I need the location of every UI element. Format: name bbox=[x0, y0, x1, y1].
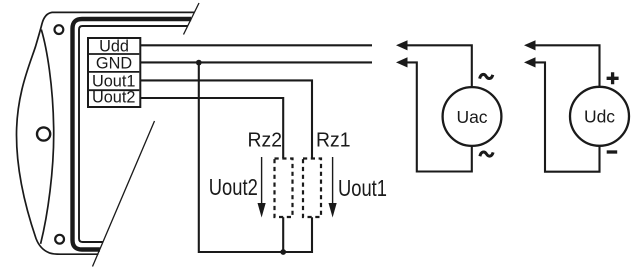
svg-text:Udc: Udc bbox=[584, 107, 615, 127]
svg-text:Uout2: Uout2 bbox=[209, 174, 258, 200]
svg-text:GND: GND bbox=[96, 55, 132, 73]
svg-text:Udd: Udd bbox=[99, 38, 129, 56]
svg-text:Uac: Uac bbox=[456, 107, 487, 127]
svg-text:Rz2: Rz2 bbox=[248, 129, 283, 152]
svg-text:Uout1: Uout1 bbox=[338, 175, 387, 201]
svg-text:Uout2: Uout2 bbox=[92, 88, 135, 106]
svg-text:Rz1: Rz1 bbox=[316, 129, 351, 152]
